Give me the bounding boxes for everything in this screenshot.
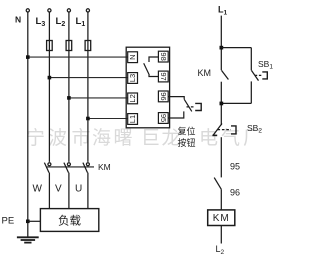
wire FR to KM coil bbox=[220, 189, 222, 210]
svg-text:96: 96 bbox=[230, 188, 240, 198]
svg-text:巨: 巨 bbox=[141, 128, 160, 149]
svg-text:L2: L2 bbox=[128, 94, 137, 102]
terminal N of relay bbox=[128, 52, 138, 63]
wire L3 vertical bbox=[48, 12, 50, 162]
svg-text:95: 95 bbox=[159, 114, 168, 122]
svg-text:V: V bbox=[55, 184, 62, 195]
svg-text:KM: KM bbox=[198, 68, 212, 78]
terminal 97 of relay bbox=[158, 71, 168, 82]
contactor KM main contacts bbox=[44, 163, 94, 209]
svg-text:N: N bbox=[128, 54, 137, 59]
svg-text:波: 波 bbox=[48, 127, 67, 149]
svg-text:PE: PE bbox=[2, 216, 15, 227]
SB2 actuator head bbox=[231, 126, 236, 134]
wire SB1 branch lower bbox=[250, 81, 252, 103]
contact 95-96 reset, right of relay bbox=[168, 97, 192, 118]
node L3 terminal circle bbox=[48, 9, 51, 12]
node N terminal circle bbox=[26, 9, 29, 12]
contact KM aux blade bbox=[222, 70, 229, 79]
node junction L1 tap bbox=[86, 117, 90, 121]
SB2 actuator dashes bbox=[218, 129, 232, 131]
wire parallel bottom bbox=[221, 102, 251, 104]
wire SB1 branch upper bbox=[250, 48, 252, 71]
ground symbol bbox=[17, 237, 39, 242]
SB1 actuator head bbox=[262, 72, 267, 79]
coil KM box bbox=[208, 210, 235, 226]
reset actuator dashes bbox=[187, 106, 196, 108]
wire fuse L1 through bbox=[87, 41, 89, 51]
fuse FU on L1 bbox=[85, 41, 91, 51]
contact KM pole L2 bbox=[67, 163, 70, 166]
svg-text:96: 96 bbox=[159, 92, 168, 100]
wire KM aux lower bbox=[220, 82, 222, 125]
svg-text:复位: 复位 bbox=[178, 125, 196, 136]
contact KM pole L1 bbox=[86, 163, 89, 166]
wire SB2 to FR contact bbox=[220, 137, 222, 177]
wire L1 control drop bbox=[220, 16, 222, 71]
node junction bottom parallel bbox=[220, 102, 224, 106]
wire PE to load bbox=[28, 220, 41, 222]
wire L1 vertical bbox=[87, 12, 89, 162]
svg-text:曙: 曙 bbox=[114, 128, 133, 149]
terminal 96 of relay bbox=[158, 91, 168, 102]
node junction PE bbox=[26, 220, 30, 224]
svg-text:负载: 负载 bbox=[58, 213, 81, 227]
svg-text:气: 气 bbox=[221, 127, 240, 149]
node junction N tap bbox=[26, 55, 30, 59]
wire L1 tap to relay bbox=[88, 118, 128, 120]
label 复位按钮 reset button bbox=[178, 125, 196, 148]
node L2 terminal circle bbox=[67, 9, 70, 12]
svg-text:95: 95 bbox=[230, 162, 240, 172]
reset actuator head bbox=[195, 103, 201, 110]
svg-text:W: W bbox=[33, 184, 43, 195]
watermark 宁波市海曙巨龙电气厂 bbox=[26, 127, 262, 149]
wire N tap to relay bbox=[28, 56, 128, 58]
svg-text:98: 98 bbox=[159, 52, 168, 60]
fuse FU on L2 bbox=[66, 41, 72, 51]
svg-text:按钮: 按钮 bbox=[178, 137, 196, 148]
KM linkage bar bbox=[47, 166, 94, 168]
svg-text:海: 海 bbox=[92, 127, 111, 149]
svg-text:L1: L1 bbox=[128, 115, 137, 123]
terminal L1 of relay bbox=[128, 114, 138, 125]
svg-text:KM: KM bbox=[213, 213, 230, 224]
terminal L3 of relay bbox=[128, 73, 138, 84]
svg-text:N: N bbox=[15, 15, 21, 25]
svg-text:97: 97 bbox=[159, 72, 168, 80]
load box 负载 bbox=[40, 209, 98, 232]
thermal relay FR box bbox=[126, 47, 169, 128]
wire KM coil to L2 bbox=[220, 226, 222, 244]
wire fuse L3 through bbox=[48, 41, 50, 51]
terminal L2 of relay bbox=[128, 93, 138, 104]
node L1 terminal circle bbox=[86, 9, 89, 12]
svg-text:宁: 宁 bbox=[26, 127, 45, 149]
fuse FU on L3 bbox=[47, 41, 53, 51]
svg-text:电: 电 bbox=[199, 127, 218, 149]
svg-text:U: U bbox=[75, 184, 82, 195]
svg-text:L3: L3 bbox=[128, 74, 137, 82]
wire L2 tap to relay bbox=[69, 97, 128, 99]
wire fuse L2 through bbox=[68, 41, 70, 51]
node junction top parallel bbox=[220, 46, 224, 50]
node junction L3 tap bbox=[48, 76, 52, 80]
contact SB1 blade bbox=[252, 71, 259, 81]
SB1 actuator dashes bbox=[255, 74, 262, 76]
wire L2 vertical bbox=[68, 12, 70, 162]
wire parallel top bbox=[221, 47, 251, 49]
contact 97-98 inside relay bbox=[144, 57, 159, 77]
contact KM pole L3 bbox=[48, 163, 51, 166]
wire N vertical bbox=[27, 12, 29, 236]
contact SB2 blade bbox=[212, 124, 222, 136]
contact FR 95-96 blade bbox=[214, 178, 221, 190]
node junction L2 tap bbox=[67, 96, 71, 100]
svg-text:KM: KM bbox=[98, 162, 111, 172]
terminal 95 of relay bbox=[158, 113, 168, 124]
wire L3 tap to relay bbox=[49, 77, 128, 79]
terminal 98 of relay bbox=[158, 51, 168, 62]
